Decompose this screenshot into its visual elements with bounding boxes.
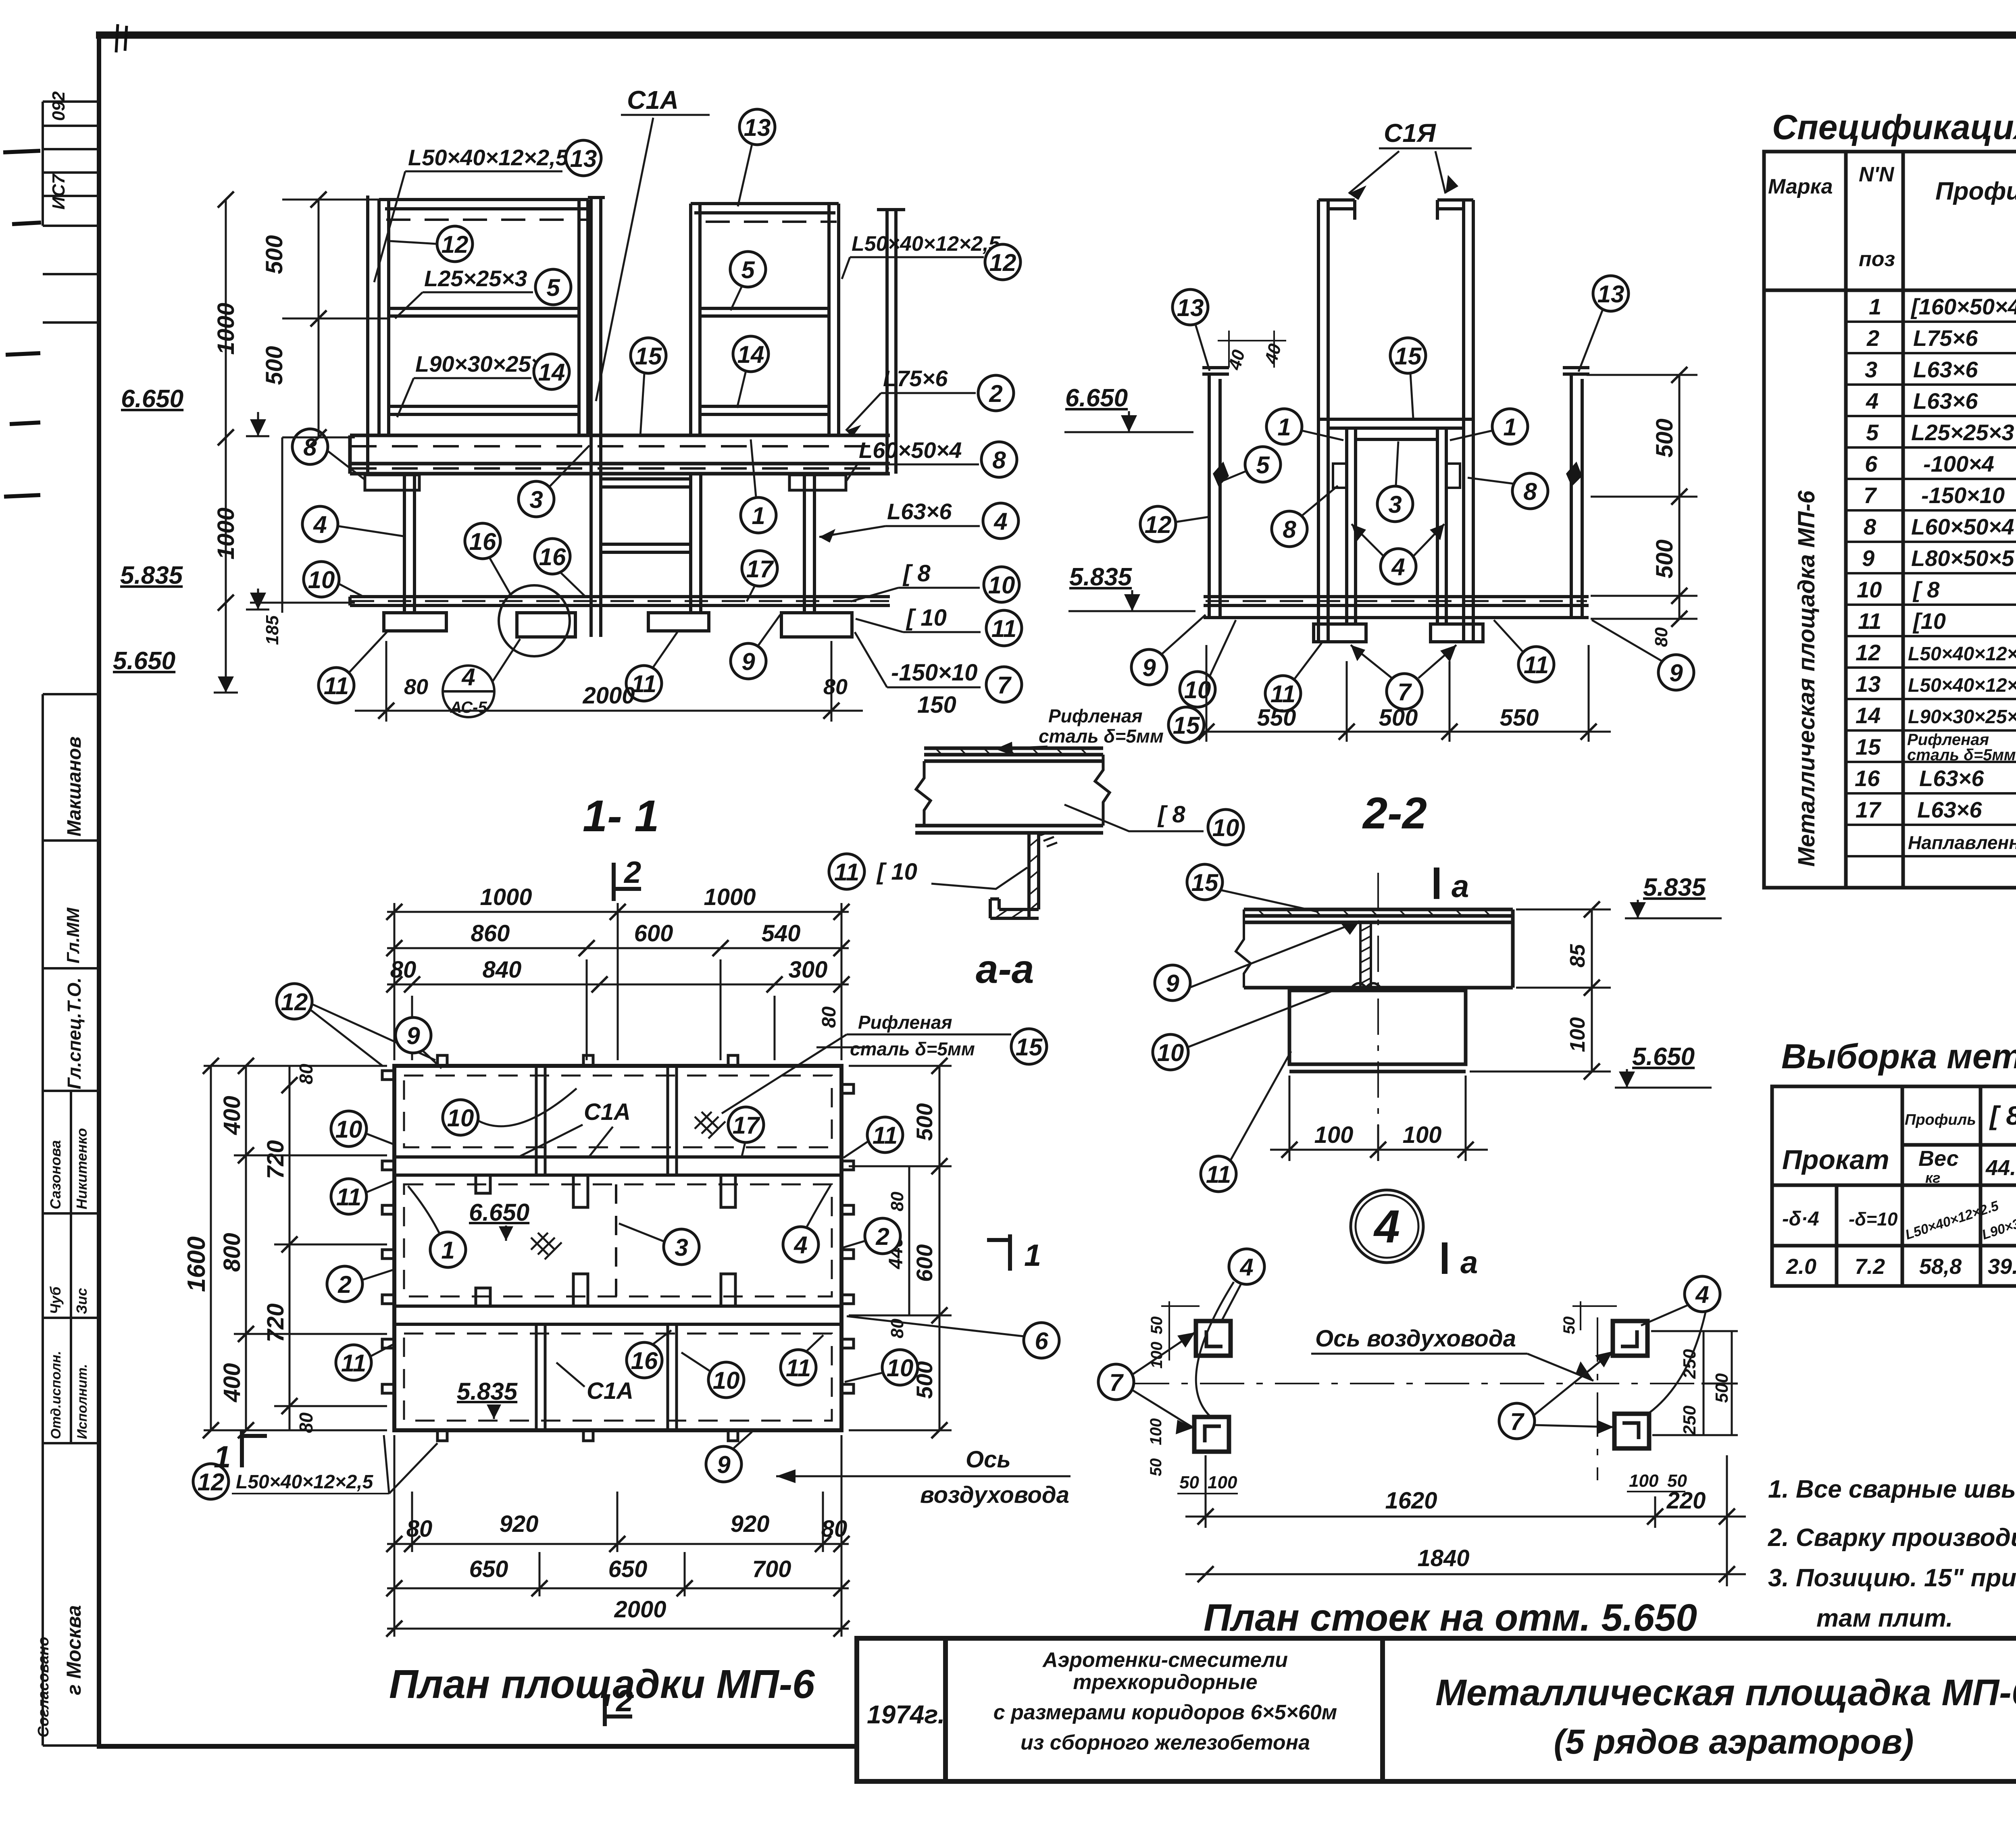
svg-text:АС-5: АС-5 xyxy=(450,699,487,716)
svg-text:50: 50 xyxy=(1179,1473,1199,1492)
callout 11 bottom middle xyxy=(626,666,662,701)
svg-text:700: 700 xyxy=(752,1556,791,1582)
svg-text:500: 500 xyxy=(1652,418,1678,458)
svg-text:[ 8: [ 8 xyxy=(1157,801,1185,828)
svg-text:920: 920 xyxy=(500,1511,539,1537)
svg-text:[ 10: [ 10 xyxy=(906,605,947,631)
svg-text:-150×10: -150×10 xyxy=(891,660,977,686)
callout 15 upper xyxy=(1187,864,1223,900)
svg-text:[10: [10 xyxy=(1912,608,1946,634)
plan bottom dimensions xyxy=(386,1435,850,1637)
svg-text:11: 11 xyxy=(336,1184,361,1211)
svg-text:5: 5 xyxy=(741,256,755,283)
svg-text:500: 500 xyxy=(912,1103,937,1141)
svg-text:воздуховода: воздуховода xyxy=(920,1482,1069,1508)
dim 1620 / 220 xyxy=(1185,1455,1746,1586)
section 2-2 callouts xyxy=(1173,289,1208,325)
section 2 cut mark top xyxy=(614,863,641,901)
svg-text:С1А: С1А xyxy=(587,1378,633,1404)
vertical axis dash-dot xyxy=(1597,1317,1598,1480)
LEFT STAMP STRIP xyxy=(43,102,99,1746)
svg-text:5.835: 5.835 xyxy=(457,1378,518,1405)
vertical dim 1000 lower / 185 xyxy=(225,437,227,674)
svg-text:L50×40×12×2.5: L50×40×12×2.5 xyxy=(1908,675,2016,696)
svg-text:5.650: 5.650 xyxy=(1632,1043,1695,1071)
svg-text:9: 9 xyxy=(406,1022,420,1049)
svg-text:5.835: 5.835 xyxy=(120,562,183,589)
callout 12 in left panel xyxy=(437,226,473,262)
stamp strip outer line xyxy=(42,102,44,226)
svg-text:2: 2 xyxy=(623,855,641,890)
section 2-2 bottom dims 550/500/550 xyxy=(1185,645,1611,742)
svg-text:N'N: N'N xyxy=(1859,163,1895,186)
beam with weld joint xyxy=(1244,909,1513,988)
svg-text:5.650: 5.650 xyxy=(113,647,175,675)
svg-text:-150×10: -150×10 xyxy=(1921,483,2005,508)
svg-text:L60×50×4: L60×50×4 xyxy=(1911,514,2014,539)
svg-text:6.650: 6.650 xyxy=(121,385,183,413)
svg-text:L25×25×3: L25×25×3 xyxy=(1911,420,2014,445)
section 1-1 platform deck xyxy=(350,435,890,474)
svg-text:2. Сварку производить электрод: 2. Сварку производить электродами Э-42 Г… xyxy=(1768,1524,2016,1552)
svg-text:Аэротенки-смесители: Аэротенки-смесители xyxy=(1042,1648,1288,1672)
svg-text:L75×6: L75×6 xyxy=(883,366,948,391)
svg-text:г Москва: г Москва xyxy=(62,1605,85,1695)
svg-text:Рифленая: Рифленая xyxy=(858,1012,952,1033)
svg-text:а: а xyxy=(1460,1244,1478,1280)
title block project name cell xyxy=(993,1648,1337,1754)
svg-text:400: 400 xyxy=(219,1363,245,1402)
svg-text:100: 100 xyxy=(1148,1342,1166,1369)
callout 9 bottom xyxy=(731,643,766,679)
svg-text:16: 16 xyxy=(469,528,496,555)
svg-text:11: 11 xyxy=(991,615,1016,642)
left edge clips pos12 xyxy=(382,1071,394,1393)
svg-text:092: 092 xyxy=(49,91,69,121)
svg-text:1: 1 xyxy=(214,1440,231,1474)
svg-text:1974г.: 1974г. xyxy=(867,1700,945,1729)
svg-text:550: 550 xyxy=(1500,705,1539,731)
svg-text:9: 9 xyxy=(741,648,755,675)
svg-text:9: 9 xyxy=(1166,970,1179,997)
svg-text:44.8: 44.8 xyxy=(1985,1156,2016,1180)
svg-text:800: 800 xyxy=(219,1233,245,1272)
svg-text:10: 10 xyxy=(1857,577,1882,602)
svg-text:2: 2 xyxy=(989,380,1002,407)
svg-text:План стоек на отм. 5.650: План стоек на отм. 5.650 xyxy=(1204,1596,1697,1639)
svg-text:1600: 1600 xyxy=(183,1236,210,1292)
svg-text:11: 11 xyxy=(834,859,859,886)
left break line xyxy=(1236,909,1251,988)
svg-text:[ 8: [ 8 xyxy=(1912,577,1940,602)
svg-text:58,8: 58,8 xyxy=(1919,1255,1962,1279)
top frame border xyxy=(96,31,2016,39)
callout 3 xyxy=(519,481,554,517)
svg-text:Макшанов: Макшанов xyxy=(64,737,85,836)
svg-text:Спецификация металла на 1марку: Спецификация металла на 1марку xyxy=(1772,108,2016,147)
svg-text:Отд.исполн.: Отд.исполн. xyxy=(48,1351,64,1439)
callout 9 (to channel at 5.835) xyxy=(1155,965,1190,1001)
svg-text:2000: 2000 xyxy=(614,1596,666,1623)
centre dash-dot line xyxy=(1377,873,1379,1171)
vertical weld seam xyxy=(1360,922,1371,988)
svg-text:1- 1: 1- 1 xyxy=(583,791,659,841)
svg-text:1. Все сварные швы h= 4мм.: 1. Все сварные швы h= 4мм. xyxy=(1768,1475,2016,1503)
svg-text:14: 14 xyxy=(538,359,565,386)
svg-text:11: 11 xyxy=(1858,608,1881,634)
svg-text:15: 15 xyxy=(1016,1034,1043,1061)
title block outer border xyxy=(857,1638,2016,1781)
svg-text:300: 300 xyxy=(789,957,828,983)
svg-text:Чуб: Чуб xyxy=(47,1286,64,1314)
bottom frame border (left of title block) xyxy=(97,1744,859,1749)
svg-text:8: 8 xyxy=(1864,514,1876,539)
svg-text:10: 10 xyxy=(887,1354,914,1382)
plan band separators xyxy=(394,1157,841,1324)
svg-text:100: 100 xyxy=(1208,1473,1237,1492)
main stamp boxes xyxy=(43,693,99,695)
svg-text:80: 80 xyxy=(823,675,848,699)
callout 10 (to beam weld) xyxy=(1153,1034,1188,1070)
svg-text:16: 16 xyxy=(539,543,566,570)
svg-text:860: 860 xyxy=(471,920,510,947)
svg-text:ИС7: ИС7 xyxy=(49,173,69,210)
svg-text:L63×6: L63×6 xyxy=(1913,357,1978,382)
svg-text:17: 17 xyxy=(1856,797,1882,822)
svg-text:3: 3 xyxy=(675,1234,688,1261)
svg-text:100: 100 xyxy=(1314,1122,1354,1148)
hatch patch band2 xyxy=(531,1233,562,1259)
svg-text:там плит.: там плит. xyxy=(1816,1604,1953,1632)
svg-text:L50×40×12×2.5: L50×40×12×2.5 xyxy=(1908,643,2016,665)
svg-text:Металлическая площадка МП-6: Металлическая площадка МП-6 xyxy=(1793,490,1820,867)
svg-text:с размерами коридоров 6×5×60м: с размерами коридоров 6×5×60м xyxy=(993,1701,1337,1724)
vertical dim chain 500/500 xyxy=(318,200,320,437)
svg-text:13: 13 xyxy=(1856,671,1881,697)
svg-text:-100×4: -100×4 xyxy=(1923,451,1994,476)
svg-text:13: 13 xyxy=(1597,281,1624,308)
svg-text:9: 9 xyxy=(717,1451,731,1478)
callout 14 right panel xyxy=(733,336,768,372)
svg-text:L50×40×12×2,5: L50×40×12×2,5 xyxy=(408,145,569,170)
TR small dim 50 xyxy=(1572,1301,1617,1330)
vyborka outer border xyxy=(1772,1086,2016,1286)
base channel beams xyxy=(350,597,890,605)
spec table column lines xyxy=(1844,152,1848,888)
svg-text:4: 4 xyxy=(313,511,327,538)
svg-text:500: 500 xyxy=(1652,539,1678,578)
svg-text:Исполнит.: Исполнит. xyxy=(75,1364,90,1439)
svg-text:2: 2 xyxy=(1866,325,1879,351)
svg-text:1: 1 xyxy=(1503,414,1516,441)
vyborka horizontal lines xyxy=(1902,1143,2016,1147)
svg-text:поз: поз xyxy=(1859,248,1895,271)
svg-text:[ 8: [ 8 xyxy=(902,560,931,587)
svg-text:Профиль: Профиль xyxy=(1935,177,2016,205)
channel C10 web section xyxy=(990,833,1039,918)
svg-text:Прокат: Прокат xyxy=(1782,1144,1889,1175)
svg-text:-δ·4: -δ·4 xyxy=(1782,1207,1819,1230)
svg-text:100: 100 xyxy=(1403,1122,1442,1148)
spec table header texts xyxy=(1768,161,2016,271)
callout 17 xyxy=(742,551,777,586)
svg-text:L80×50×5: L80×50×5 xyxy=(1911,545,2014,571)
svg-text:11: 11 xyxy=(341,1350,366,1377)
svg-text:80: 80 xyxy=(887,1192,907,1211)
svg-text:[160×50×4: [160×50×4 xyxy=(1910,294,2016,319)
callout 4 top-right xyxy=(1685,1276,1720,1312)
svg-text:2000: 2000 xyxy=(582,682,635,709)
C1A leader line xyxy=(596,118,653,401)
vyborka texts xyxy=(1782,1096,2016,1282)
40/40 small dims xyxy=(1228,331,1230,368)
svg-text:2-2: 2-2 xyxy=(1362,789,1427,838)
plan dashed panel edges band1 xyxy=(404,1076,832,1421)
svg-text:сталь δ=5мм: сталь δ=5мм xyxy=(850,1038,975,1059)
weld clip plates pos8 xyxy=(1333,464,1347,488)
TL small dims 50/100 xyxy=(1161,1301,1200,1361)
svg-text:4: 4 xyxy=(1391,553,1405,580)
svg-text:Ось: Ось xyxy=(966,1446,1011,1473)
svg-text:50: 50 xyxy=(1560,1317,1578,1335)
svg-text:11: 11 xyxy=(324,672,349,699)
svg-text:100: 100 xyxy=(1147,1418,1165,1445)
callout 11 bottom left xyxy=(319,668,354,703)
svg-text:Гл.спец.Т.О.: Гл.спец.Т.О. xyxy=(64,978,85,1089)
svg-text:2.0: 2.0 xyxy=(1786,1255,1816,1279)
svg-text:3: 3 xyxy=(1865,357,1877,382)
callout 15 deck xyxy=(631,338,666,373)
svg-text:15: 15 xyxy=(635,343,662,370)
ladder rungs xyxy=(601,479,691,552)
svg-text:трехкоридорные: трехкоридорные xyxy=(1073,1671,1257,1694)
svg-text:Наплавленный металл: Наплавленный металл xyxy=(1908,832,2016,853)
svg-text:-δ=10: -δ=10 xyxy=(1849,1209,1898,1230)
section 1-1 right panel dashed handrail xyxy=(706,221,837,223)
callout 7 left xyxy=(1098,1364,1134,1400)
svg-text:80: 80 xyxy=(390,957,417,983)
svg-text:[ 10: [ 10 xyxy=(876,859,917,885)
riffled hatch ticks xyxy=(935,748,1087,755)
svg-text:13: 13 xyxy=(1177,294,1204,321)
svg-text:3: 3 xyxy=(529,486,543,513)
svg-text:сталь δ=5мм: сталь δ=5мм xyxy=(1907,746,2016,764)
svg-text:L60×50×4: L60×50×4 xyxy=(859,437,962,463)
svg-text:500: 500 xyxy=(1712,1373,1732,1403)
svg-text:План площадки МП-6: План площадки МП-6 xyxy=(389,1662,815,1707)
svg-text:L63×6: L63×6 xyxy=(1913,388,1978,414)
right edge clips xyxy=(841,1084,854,1393)
svg-text:85: 85 xyxy=(1566,944,1589,967)
svg-text:10: 10 xyxy=(1212,814,1239,841)
svg-text:Марка: Марка xyxy=(1768,175,1833,198)
svg-text:7.2: 7.2 xyxy=(1855,1255,1885,1279)
scan binder marks on far left edge xyxy=(3,151,41,497)
section 1-1 far right hanging rail xyxy=(877,210,905,474)
svg-text:12: 12 xyxy=(281,988,308,1015)
svg-text:L63×6: L63×6 xyxy=(887,499,952,524)
svg-text:16: 16 xyxy=(631,1347,658,1374)
channel C8 bottom flange xyxy=(915,826,1103,833)
svg-text:7: 7 xyxy=(997,672,1012,699)
svg-text:10: 10 xyxy=(447,1105,474,1132)
svg-text:15: 15 xyxy=(1173,712,1200,739)
post base TR xyxy=(1613,1321,1647,1356)
svg-text:5: 5 xyxy=(1256,451,1270,479)
section 1-1 left levels and dims xyxy=(113,191,390,693)
svg-text:13: 13 xyxy=(570,145,597,172)
callout 8 left xyxy=(292,429,328,464)
svg-text:12: 12 xyxy=(989,249,1016,276)
spec table outer border xyxy=(1764,152,2016,888)
svg-text:11: 11 xyxy=(1524,651,1549,678)
svg-text:11: 11 xyxy=(631,670,656,697)
svg-text:17: 17 xyxy=(733,1112,760,1139)
svg-text:10: 10 xyxy=(335,1116,362,1143)
svg-text:1000: 1000 xyxy=(213,303,239,355)
svg-text:600: 600 xyxy=(634,920,673,947)
svg-text:185: 185 xyxy=(262,615,282,645)
svg-text:L90×30×25×3: L90×30×25×3 xyxy=(1908,706,2016,728)
svg-text:Согласовано: Согласовано xyxy=(35,1637,52,1737)
svg-text:7: 7 xyxy=(1510,1408,1524,1435)
svg-text:Никитенко: Никитенко xyxy=(73,1128,90,1209)
section 1-1 left panel dashed handrail xyxy=(386,218,587,221)
section 1-1 right railing panel xyxy=(691,204,839,435)
callout 16 xyxy=(465,523,500,559)
svg-text:5: 5 xyxy=(1866,420,1879,445)
svg-text:540: 540 xyxy=(762,920,801,947)
post base BR xyxy=(1614,1414,1649,1448)
svg-text:9: 9 xyxy=(1862,545,1874,571)
svg-text:кг: кг xyxy=(1925,1169,1940,1186)
section 1-1 left railing panel xyxy=(368,196,589,475)
svg-text:сталь δ=5мм: сталь δ=5мм xyxy=(1039,726,1164,747)
spec table header bottom line xyxy=(1764,289,2016,292)
svg-text:L63×6: L63×6 xyxy=(1917,797,1982,822)
base joint detail circle xyxy=(499,585,570,656)
svg-text:а: а xyxy=(1452,868,1469,904)
svg-text:600: 600 xyxy=(912,1244,937,1282)
svg-text:15: 15 xyxy=(1395,343,1422,370)
svg-text:Вес: Вес xyxy=(1918,1146,1959,1171)
svg-text:5.835: 5.835 xyxy=(1069,563,1133,591)
svg-text:Гл.ММ: Гл.ММ xyxy=(63,907,83,963)
svg-text:250: 250 xyxy=(1680,1405,1699,1436)
svg-text:1: 1 xyxy=(1869,294,1881,319)
svg-text:500: 500 xyxy=(1379,705,1418,731)
plan callouts xyxy=(193,984,1059,1499)
hatch patch band1 xyxy=(695,1112,725,1138)
svg-text:80: 80 xyxy=(821,1516,848,1542)
svg-text:3: 3 xyxy=(1388,491,1402,518)
svg-text:7: 7 xyxy=(1109,1369,1124,1396)
callout 5 right panel xyxy=(730,252,766,287)
svg-text:1: 1 xyxy=(1277,414,1291,441)
dim 1840 xyxy=(1185,1573,1746,1575)
svg-text:840: 840 xyxy=(483,957,522,983)
plan outer rect xyxy=(394,1066,841,1430)
svg-text:[ 8: [ 8 xyxy=(1989,1101,2016,1130)
svg-text:4: 4 xyxy=(461,664,475,691)
svg-text:50: 50 xyxy=(1147,1458,1165,1477)
callout 4 left xyxy=(302,506,338,542)
TITLE BLOCK xyxy=(857,1638,2016,1781)
big mark circle 4 xyxy=(1351,1190,1423,1263)
svg-text:4: 4 xyxy=(1695,1281,1709,1308)
svg-text:8: 8 xyxy=(1523,478,1537,505)
svg-text:15: 15 xyxy=(1856,734,1881,759)
channel C8 top plate xyxy=(924,748,1103,761)
spec table row lines xyxy=(1846,320,2016,323)
svg-text:11: 11 xyxy=(786,1354,811,1382)
svg-text:Металлическая площадка МП-6: Металлическая площадка МП-6 xyxy=(1435,1672,2016,1713)
base plates xyxy=(384,613,852,637)
svg-text:400: 400 xyxy=(219,1096,245,1135)
svg-text:7: 7 xyxy=(1397,678,1412,705)
band2 dashed divider xyxy=(615,1184,617,1296)
svg-text:8: 8 xyxy=(992,447,1006,474)
section 2-2 bottom platform band xyxy=(1204,597,1589,618)
svg-text:920: 920 xyxy=(731,1511,770,1537)
support bracket left (pos 8) xyxy=(365,475,419,490)
svg-text:4: 4 xyxy=(793,1232,807,1259)
svg-text:80: 80 xyxy=(406,1516,433,1542)
svg-text:12: 12 xyxy=(442,231,469,258)
riffled ticks on beam top xyxy=(1258,909,1490,916)
section 2-2 central right post xyxy=(1437,200,1473,641)
section 2-2 inner posts xyxy=(1347,428,1446,624)
svg-text:Зис: Зис xyxy=(73,1288,90,1314)
svg-text:80: 80 xyxy=(296,1412,317,1433)
plan right side dims 500/600/500 and 80/440/80 xyxy=(849,1066,952,1430)
svg-text:5: 5 xyxy=(546,274,560,301)
channel C8 web with break lines xyxy=(916,761,931,826)
svg-text:150: 150 xyxy=(917,692,956,718)
svg-text:L25×25×3: L25×25×3 xyxy=(424,266,527,291)
callout 4 top-left xyxy=(1229,1249,1264,1284)
section mark 2 bottom xyxy=(605,1689,632,1726)
svg-text:L75×6: L75×6 xyxy=(1913,325,1978,351)
plan top dimensions xyxy=(387,903,849,1060)
callout 11 xyxy=(1201,1156,1236,1192)
svg-text:Ось воздуховода: Ось воздуховода xyxy=(1315,1325,1516,1352)
title block vertical dividers xyxy=(943,1638,948,1781)
svg-text:12: 12 xyxy=(1856,640,1881,665)
title block sheet name cell xyxy=(1435,1672,2016,1761)
svg-text:4: 4 xyxy=(993,508,1007,535)
svg-text:1000: 1000 xyxy=(480,884,532,910)
bottom dims 100/100 xyxy=(1270,1076,1488,1161)
svg-text:(5 рядов аэраторов): (5 рядов аэраторов) xyxy=(1554,1723,1914,1761)
svg-text:Выборка металла на площадку МП: Выборка металла на площадку МП-6 xyxy=(1781,1037,2016,1076)
svg-text:650: 650 xyxy=(469,1556,508,1582)
section 1-1 bottom dimension 2000 xyxy=(355,641,863,722)
svg-text:14: 14 xyxy=(737,341,764,368)
svg-text:2: 2 xyxy=(875,1223,889,1250)
svg-text:Рифленая: Рифленая xyxy=(1048,705,1143,726)
post box below xyxy=(1289,990,1466,1072)
svg-text:4: 4 xyxy=(1866,388,1879,414)
svg-text:9: 9 xyxy=(1142,654,1156,681)
mark 4/AC5 fraction circle xyxy=(443,639,520,717)
svg-text:720: 720 xyxy=(262,1140,289,1179)
section mark 1 left xyxy=(242,1430,267,1467)
svg-text:13: 13 xyxy=(744,114,771,141)
svg-text:10: 10 xyxy=(988,572,1015,599)
right dim 85/100 xyxy=(1470,909,1611,1072)
weld mark at web/flange xyxy=(1040,832,1057,847)
